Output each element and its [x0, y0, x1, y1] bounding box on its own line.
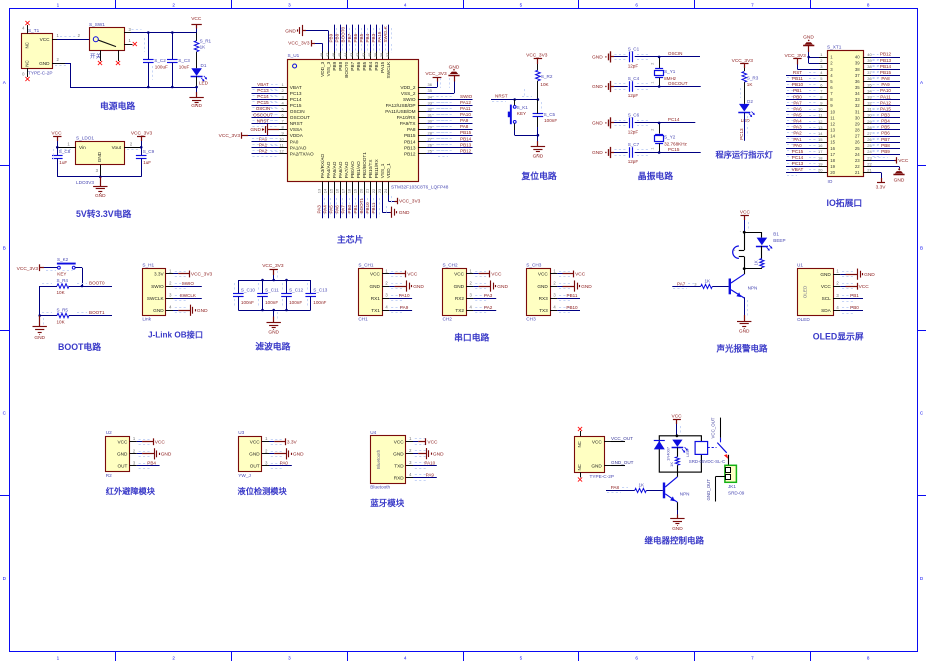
- svg-text:38: 38: [855, 67, 860, 72]
- svg-text:PA9/TX: PA9/TX: [400, 121, 417, 126]
- svg-text:PA2: PA2: [793, 131, 802, 136]
- svg-text:PB3: PB3: [374, 61, 379, 70]
- svg-text:OSCOUT: OSCOUT: [290, 115, 310, 120]
- svg-text:S_C1: S_C1: [628, 47, 640, 52]
- svg-text:12pF: 12pF: [628, 159, 639, 164]
- svg-text:PB1: PB1: [793, 88, 802, 93]
- svg-text:VCC: VCC: [394, 439, 405, 444]
- connector T1 TYPE-C-2P: [22, 28, 53, 76]
- svg-text:100uF: 100uF: [155, 64, 168, 69]
- svg-text:23: 23: [377, 188, 382, 193]
- svg-text:100nF: 100nF: [289, 300, 302, 305]
- connector U2 R2: [106, 430, 130, 478]
- net label PB7 at U1 top: [347, 25, 356, 53]
- svg-text:NC: NC: [577, 464, 582, 470]
- pin 16 XT1: [818, 143, 836, 151]
- svg-text:PB10: PB10: [792, 82, 804, 87]
- power port VCC_3V3 at U1 top: [288, 40, 322, 51]
- net label PA12 XT1 right: [871, 100, 900, 108]
- svg-text:CH2: CH2: [443, 317, 453, 322]
- wire VCC_OUT vertical: [711, 417, 721, 438]
- svg-text:PA3/RX/AO: PA3/RX/AO: [320, 153, 325, 178]
- junction alarm top: [743, 231, 746, 234]
- pin 40 XT1: [855, 52, 873, 60]
- svg-text:21: 21: [365, 188, 370, 193]
- pin 41 U1 PB5: [361, 52, 367, 71]
- pin 3 S_CH1 RX1 -> PA10: [371, 293, 412, 301]
- svg-text:KEY: KEY: [57, 272, 66, 277]
- pin 36 XT1: [855, 76, 873, 84]
- pin 33 U1 PA12/USB/DP: [386, 100, 433, 108]
- svg-text:OLED显示屏: OLED显示屏: [813, 331, 864, 341]
- svg-text:37: 37: [385, 52, 390, 57]
- power port VCC_3V3 indicator: [732, 58, 754, 71]
- svg-text:38: 38: [867, 64, 872, 69]
- pin 40 U1 PB4: [367, 52, 373, 71]
- svg-text:PB6: PB6: [353, 33, 358, 42]
- svg-text:PA7: PA7: [793, 100, 802, 105]
- net label BOOT0: [89, 281, 105, 286]
- diode D4 1N4007 flyback: [654, 441, 671, 461]
- svg-text:LED: LED: [199, 81, 209, 86]
- connector XT1 IO header: [827, 45, 864, 184]
- pin 25 XT1: [855, 143, 873, 151]
- connector U4 Bluetooth: [370, 430, 405, 489]
- pin 4 S_H1 GND -> GND: [153, 305, 208, 316]
- power port VCC XT1 pin23: [871, 157, 909, 164]
- svg-text:PC14: PC14: [792, 155, 804, 160]
- svg-text:5: 5: [520, 656, 523, 661]
- svg-text:24: 24: [383, 188, 388, 193]
- svg-text:21: 21: [855, 170, 860, 175]
- SW1 bottom pins no-connect: [98, 50, 120, 65]
- svg-text:Bluetooth: Bluetooth: [370, 484, 390, 489]
- svg-text:23: 23: [867, 155, 872, 160]
- pin 4 S_CH1 TX1 -> PA9: [371, 305, 412, 313]
- svg-text:PB13: PB13: [460, 142, 472, 147]
- net label PA7: [673, 281, 697, 288]
- regulator LDO1 LDO3V3: [76, 136, 125, 186]
- svg-text:OSCIN: OSCIN: [256, 106, 271, 111]
- net label PA7 XT1 left: [786, 100, 819, 108]
- junction Y2 bottom: [658, 151, 661, 154]
- pin 10 U1 PA0: [279, 136, 299, 144]
- pin 13 XT1: [818, 125, 836, 133]
- svg-text:15: 15: [830, 140, 835, 145]
- net label PB3 XT1 right: [871, 113, 900, 121]
- net label PA10 at U1 right: [426, 112, 473, 120]
- svg-text:OUT: OUT: [250, 464, 260, 469]
- pin 29 XT1: [855, 119, 873, 127]
- net label PA0 at U1 left: [252, 136, 280, 144]
- pin 29 U1 PA8: [407, 124, 433, 132]
- net label PA11 at U1 right: [426, 106, 473, 114]
- resistor R2 10K: [536, 70, 553, 99]
- net label RST XT1 left: [786, 70, 819, 78]
- svg-text:PA10/RX: PA10/RX: [397, 115, 417, 120]
- svg-text:PC15: PC15: [290, 103, 302, 108]
- svg-text:10K: 10K: [57, 290, 66, 295]
- net label PA4 at U1 bottom: [323, 195, 331, 218]
- pin 46 U1 PB9: [331, 52, 337, 71]
- crystal Y2 32.768KHz: [651, 123, 688, 153]
- svg-text:VCC_OUT: VCC_OUT: [711, 417, 716, 438]
- svg-text:VCC: VCC: [454, 272, 465, 277]
- svg-text:SRD-05VDC-SL-C: SRD-05VDC-SL-C: [689, 459, 725, 464]
- svg-text:KEY: KEY: [517, 111, 526, 116]
- svg-text:BOOT1: BOOT1: [89, 310, 105, 315]
- net label SWCLK at U1 top: [383, 25, 392, 53]
- svg-text:PB11: PB11: [567, 293, 578, 298]
- svg-text:LED: LED: [741, 118, 751, 123]
- ground GND at U1 top VSS_3: [285, 25, 328, 52]
- ground GND relay: [670, 502, 684, 532]
- svg-text:100nF: 100nF: [265, 300, 278, 305]
- svg-text:1K: 1K: [705, 278, 712, 283]
- capacitor C5 100nF: [525, 89, 558, 135]
- capacitor C12 100nF filter: [281, 280, 303, 310]
- svg-text:PA8: PA8: [460, 124, 469, 129]
- svg-text:PB13: PB13: [880, 58, 892, 63]
- pin 1 S_CH2 VCC -> VCC: [454, 268, 502, 277]
- svg-text:10: 10: [279, 136, 284, 141]
- svg-text:PA1: PA1: [259, 142, 268, 147]
- svg-text:PB6: PB6: [881, 131, 890, 136]
- svg-text:PB3: PB3: [371, 33, 376, 42]
- resistor 1K alarm vertical: [754, 246, 765, 269]
- pin 3 XT1: [819, 64, 833, 72]
- svg-text:S_R4: S_R4: [57, 278, 69, 283]
- net label PB8 at U1 top: [335, 25, 343, 53]
- svg-text:GND_OUT: GND_OUT: [611, 460, 634, 465]
- wire filter top rail: [238, 280, 310, 282]
- pin 3 U4 TXD -> PA10: [394, 460, 437, 468]
- pin 2 U3 GND -> GND: [249, 448, 304, 459]
- svg-text:VCC: VCC: [427, 439, 438, 445]
- svg-text:R2: R2: [106, 473, 112, 478]
- ground GND filter: [267, 310, 281, 336]
- pin 3 U2 OUT -> PB4: [117, 460, 159, 468]
- svg-text:PC15: PC15: [257, 100, 269, 105]
- svg-text:1uF: 1uF: [59, 160, 67, 165]
- svg-text:45: 45: [337, 52, 342, 57]
- svg-text:PB10: PB10: [566, 305, 578, 310]
- svg-text:PA11: PA11: [460, 106, 471, 111]
- svg-text:S_C7: S_C7: [628, 142, 640, 147]
- svg-text:PB10/TX: PB10/TX: [368, 159, 373, 179]
- button K2 KEY: [46, 257, 83, 286]
- pin 20 XT1: [818, 167, 836, 175]
- svg-text:S_C12: S_C12: [289, 288, 303, 293]
- ground GND XT1 pins 1-2: [803, 34, 819, 63]
- pin 23 XT1: [855, 155, 873, 163]
- net label NRST: [491, 94, 538, 102]
- svg-text:OUT: OUT: [117, 464, 127, 469]
- svg-text:PB9: PB9: [881, 149, 890, 154]
- svg-text:29: 29: [855, 121, 860, 126]
- svg-text:OLED: OLED: [803, 285, 808, 298]
- svg-text:30: 30: [428, 118, 433, 123]
- ground GND alarm: [737, 297, 751, 334]
- svg-text:OSCOUT: OSCOUT: [253, 112, 273, 117]
- pin 4 U1 PC15: [279, 100, 302, 108]
- svg-text:10K: 10K: [540, 82, 549, 87]
- svg-text:VSS_2: VSS_2: [401, 91, 416, 96]
- svg-text:S_U1: S_U1: [288, 53, 300, 58]
- svg-text:S_CH2: S_CH2: [443, 262, 459, 267]
- svg-text:BOOT0: BOOT0: [341, 26, 346, 42]
- svg-text:LDO3V3: LDO3V3: [76, 180, 94, 185]
- svg-text:S_C3: S_C3: [178, 58, 190, 63]
- power port VCC relay: [672, 414, 683, 436]
- wire GND_OUT vertical: [706, 477, 726, 502]
- svg-text:NC: NC: [577, 441, 582, 447]
- net label PB12 XT1 right: [871, 52, 900, 60]
- svg-text:U3: U3: [238, 430, 244, 435]
- svg-text:SWIO: SWIO: [182, 281, 195, 286]
- connector S_CH2 CH2: [443, 262, 467, 321]
- svg-text:1: 1: [651, 81, 655, 83]
- svg-text:S_CH3: S_CH3: [526, 262, 542, 267]
- svg-text:PB8: PB8: [338, 61, 343, 70]
- net label PA9 XT1 right: [871, 82, 900, 90]
- svg-text:PC14: PC14: [290, 97, 302, 102]
- svg-text:PA12/USB/DP: PA12/USB/DP: [386, 103, 416, 108]
- svg-text:BOOT0: BOOT0: [344, 61, 349, 77]
- svg-text:S_R1: S_R1: [200, 39, 212, 44]
- net label OSCOUT: [659, 81, 701, 87]
- net label PA2 XT1 left: [786, 131, 819, 139]
- svg-text:14: 14: [323, 188, 328, 193]
- relay frame K1 SRD-05VDC-SL-C: [659, 436, 701, 472]
- pin 11 XT1: [818, 113, 835, 121]
- svg-text:VCC_3V3: VCC_3V3: [219, 133, 241, 139]
- svg-text:NRST: NRST: [257, 118, 270, 123]
- svg-text:35: 35: [855, 85, 860, 90]
- svg-text:VCC: VCC: [592, 439, 603, 444]
- pin 2 U1 VCC -> VCC: [821, 281, 869, 290]
- svg-text:100nF: 100nF: [313, 300, 326, 305]
- svg-text:18: 18: [818, 155, 823, 160]
- svg-text:VCC: VCC: [859, 284, 870, 290]
- svg-text:GND: GND: [39, 61, 50, 66]
- svg-text:PB5: PB5: [359, 33, 364, 42]
- pin 42 U1 PB6: [355, 52, 361, 71]
- svg-text:PB0: PB0: [793, 94, 802, 99]
- svg-text:27: 27: [867, 131, 872, 136]
- svg-text:S_C6: S_C6: [628, 113, 640, 118]
- capacitor C4 12pF with ground: [592, 76, 659, 98]
- svg-text:39: 39: [855, 61, 860, 66]
- net label PB1 at U1 bottom: [353, 195, 362, 218]
- pin 15 XT1: [818, 137, 836, 145]
- svg-text:10: 10: [818, 107, 823, 112]
- power port VCC_3V3 filter: [262, 263, 284, 280]
- wire alarm top node: [744, 232, 762, 250]
- net label OSCIN at U1 left: [252, 106, 280, 114]
- svg-text:30: 30: [855, 115, 860, 120]
- net label PC14 crystal: [659, 117, 695, 122]
- svg-text:32: 32: [428, 106, 433, 111]
- svg-text:GND: GND: [592, 150, 603, 156]
- svg-text:1K: 1K: [200, 45, 207, 50]
- svg-text:3.3V: 3.3V: [154, 272, 165, 277]
- section label power circuit: [100, 100, 135, 111]
- pin 28 XT1: [855, 125, 873, 133]
- ground GND power circuit: [189, 87, 203, 109]
- svg-text:31: 31: [428, 112, 433, 117]
- svg-text:30: 30: [867, 113, 872, 118]
- capacitor C13 100nF filter: [305, 280, 327, 310]
- svg-text:OSCIN: OSCIN: [290, 109, 305, 114]
- svg-text:U4: U4: [370, 430, 376, 435]
- pin 39 XT1: [855, 58, 873, 66]
- net label PA2 at U1 left: [252, 148, 280, 156]
- svg-text:PB4: PB4: [881, 119, 890, 124]
- svg-text:32: 32: [855, 103, 860, 108]
- svg-text:10uF: 10uF: [179, 64, 190, 69]
- junction filter vcc: [272, 279, 275, 282]
- crystal Y1 8MHz: [651, 57, 677, 87]
- net label PA1 XT1 left: [786, 137, 819, 145]
- svg-text:PB2/BOOT1: PB2/BOOT1: [362, 152, 367, 178]
- net label PB13 XT1 right: [871, 58, 900, 66]
- svg-text:PB11: PB11: [371, 202, 376, 213]
- svg-text:液位检测模块: 液位检测模块: [238, 486, 288, 496]
- junction reset gnd: [537, 134, 540, 137]
- net label PB11 XT1 left: [786, 76, 819, 84]
- svg-text:VCC: VCC: [155, 439, 166, 445]
- svg-text:14: 14: [818, 131, 823, 136]
- svg-text:GND: GND: [533, 154, 544, 160]
- svg-text:GND: GND: [97, 151, 102, 162]
- pin 4 XT1: [819, 70, 833, 78]
- section label relay control: [645, 535, 705, 545]
- pin 8 U1 VSSA: [279, 124, 303, 132]
- svg-text:2: 2: [172, 656, 175, 661]
- ground GND boot: [33, 316, 47, 342]
- pin 2 XT1: [819, 58, 833, 66]
- svg-text:12: 12: [279, 149, 284, 154]
- svg-text:STM32F103C8T6_LQFP48: STM32F103C8T6_LQFP48: [391, 185, 449, 190]
- pin 36 U1 VDD_2: [400, 82, 432, 90]
- svg-text:26: 26: [855, 140, 860, 145]
- svg-text:VCC: VCC: [40, 37, 51, 42]
- svg-text:U1: U1: [797, 263, 803, 268]
- svg-text:34: 34: [428, 94, 433, 99]
- svg-text:VCC: VCC: [672, 414, 683, 420]
- pin 2 S_CH3 GND -> GND: [537, 280, 592, 291]
- svg-text:VCC_3V3: VCC_3V3: [262, 263, 284, 269]
- svg-text:PB3: PB3: [881, 113, 890, 118]
- svg-text:Vout: Vout: [112, 145, 122, 150]
- pin 1 S_CH3 VCC -> VCC: [538, 268, 586, 277]
- svg-text:PC15: PC15: [668, 147, 680, 152]
- svg-text:PA11/USB/DM: PA11/USB/DM: [385, 109, 415, 114]
- svg-text:S_C10: S_C10: [241, 288, 255, 293]
- pin 21 XT1: [855, 167, 873, 175]
- svg-text:16: 16: [335, 188, 340, 193]
- svg-text:S_C2: S_C2: [154, 58, 166, 63]
- svg-text:2: 2: [172, 3, 175, 8]
- svg-text:GND: GND: [739, 329, 750, 335]
- svg-text:44: 44: [343, 52, 348, 57]
- svg-text:GND: GND: [820, 272, 831, 277]
- pin 2 S_CH1 GND -> GND: [369, 280, 424, 291]
- capacitor C6 12pF with ground: [592, 113, 659, 135]
- net label OSCOUT at U1 left: [252, 112, 280, 120]
- net label OSCIN: [659, 51, 700, 56]
- junction Y2 top: [658, 122, 661, 125]
- resistor 1K relay base: [606, 483, 663, 493]
- net label PC13 at U1 left: [252, 88, 280, 95]
- svg-text:SDA: SDA: [821, 308, 832, 313]
- net label PB6 XT1 right: [871, 131, 900, 139]
- pin 37 XT1: [855, 70, 873, 78]
- svg-text:VCC_3V3: VCC_3V3: [732, 58, 754, 64]
- transistor Q2 NPN relay: [663, 472, 690, 502]
- junction K2 to BOOT0: [81, 285, 84, 288]
- wire T1 GND down to bottom rail: [52, 57, 197, 87]
- resistor R5 10K: [40, 308, 112, 325]
- svg-text:40: 40: [855, 55, 860, 60]
- pin 17 XT1: [818, 149, 836, 157]
- svg-text:32.768KHz: 32.768KHz: [664, 142, 687, 147]
- pin 3 S_CH3 RX3 -> PB11: [539, 293, 580, 301]
- svg-text:IO: IO: [828, 179, 833, 184]
- svg-text:PA6: PA6: [793, 106, 802, 111]
- svg-text:GND: GND: [285, 29, 296, 35]
- pin 5 U1 OSCIN: [279, 106, 305, 114]
- svg-text:PA10: PA10: [880, 88, 891, 93]
- svg-text:PA3: PA3: [317, 205, 322, 214]
- svg-text:BOOT电路: BOOT电路: [58, 341, 101, 352]
- capacitor C3 10uF: [167, 33, 190, 88]
- svg-text:PB11/RX: PB11/RX: [374, 158, 379, 178]
- ground GND at U1 pin8 VSSA: [250, 124, 279, 135]
- svg-text:3.3V: 3.3V: [287, 439, 298, 445]
- section label run indicator: [715, 150, 774, 160]
- svg-text:20: 20: [359, 188, 364, 193]
- pin 22 U1 PB11/RX: [371, 158, 379, 195]
- net label PC13 XT1 left: [786, 161, 819, 169]
- transistor Q1 NPN alarm: [729, 269, 758, 298]
- svg-text:PC14: PC14: [257, 94, 269, 99]
- svg-text:2: 2: [651, 63, 655, 65]
- svg-text:12: 12: [830, 121, 835, 126]
- button K1 KEY: [508, 100, 538, 136]
- svg-text:PA9: PA9: [426, 472, 435, 477]
- junction C2 bottom: [147, 86, 150, 89]
- svg-text:GND: GND: [250, 127, 261, 133]
- section label alarm circuit: [716, 343, 769, 353]
- pin 3 U1 SCL -> PB1: [822, 293, 863, 302]
- net label PA9 at U1 right: [426, 118, 473, 126]
- svg-text:PA1: PA1: [793, 137, 802, 142]
- section label reset circuit: [521, 170, 557, 181]
- svg-text:GND: GND: [672, 526, 683, 532]
- svg-text:46: 46: [331, 52, 336, 57]
- svg-text:GND: GND: [803, 34, 814, 40]
- pin 26 XT1: [855, 137, 873, 145]
- pin 1 LDO wire: [57, 142, 76, 150]
- svg-text:VCC: VCC: [740, 209, 751, 215]
- svg-text:3.3V: 3.3V: [876, 184, 887, 190]
- svg-text:RST: RST: [793, 70, 802, 75]
- svg-text:100nF: 100nF: [544, 118, 557, 123]
- svg-text:PB13: PB13: [404, 145, 416, 150]
- pin 38 XT1: [855, 64, 873, 72]
